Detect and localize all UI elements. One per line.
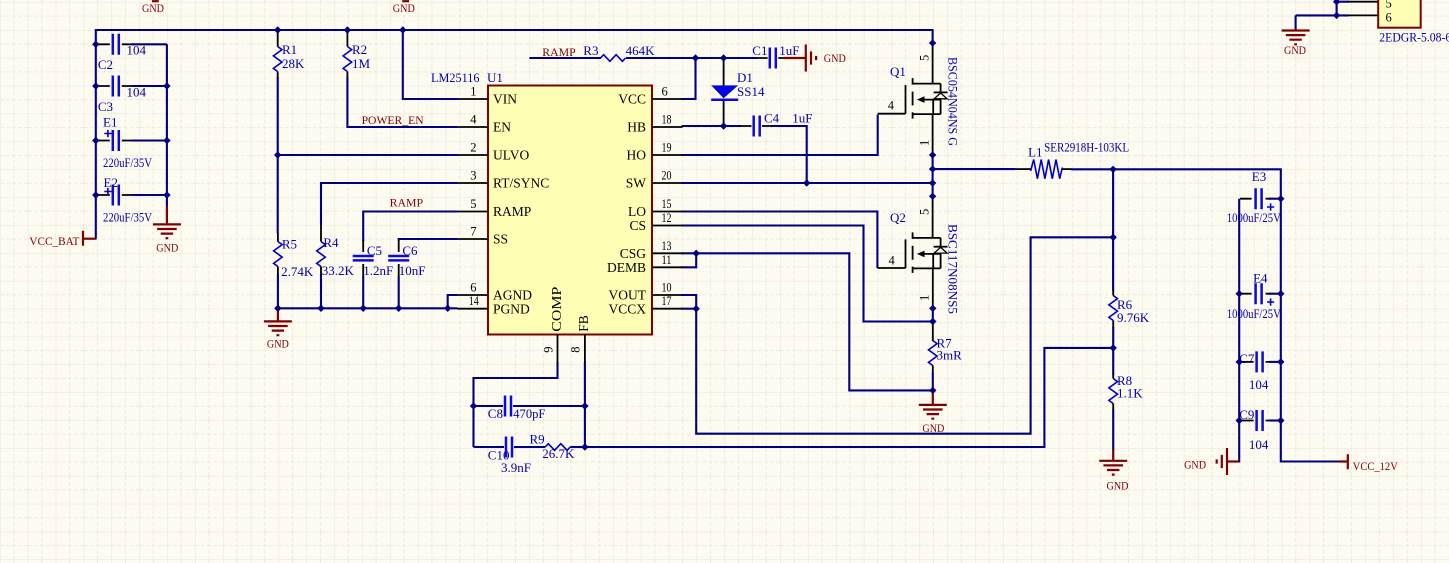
pin 7 SS — [458, 238, 489, 240]
node C8 right FB — [581, 402, 588, 409]
capacitor C2 — [113, 34, 119, 55]
svg-text:SW: SW — [626, 176, 647, 191]
node bus C6 — [395, 305, 402, 312]
wire right mini rail (C2-E2 column) — [166, 44, 168, 206]
resistor R6 — [1109, 296, 1118, 321]
node bus R5 — [274, 305, 281, 312]
svg-text:GND: GND — [156, 241, 178, 255]
svg-text:U1: U1 — [487, 70, 503, 85]
pin 12 CS — [652, 225, 683, 227]
node R9 FB — [581, 443, 588, 450]
node C3 left — [92, 82, 99, 89]
svg-text:4: 4 — [889, 254, 896, 268]
resistor R4 — [317, 242, 326, 267]
pin 11 DEMB — [652, 266, 683, 268]
node VCC drop — [692, 54, 699, 61]
svg-text:C9: C9 — [1239, 407, 1254, 422]
svg-text:FB: FB — [576, 315, 591, 332]
svg-text:5: 5 — [470, 197, 476, 211]
svg-text:LO: LO — [628, 204, 646, 219]
node R7 CSG tee — [929, 387, 936, 394]
transistor Q1 BSC054N04NS — [878, 78, 948, 119]
wire ULVO row — [278, 154, 458, 156]
svg-text:1: 1 — [918, 295, 932, 301]
wire VOUT jog down to VCCX — [682, 295, 697, 309]
svg-text:DEMB: DEMB — [607, 260, 646, 275]
svg-text:GND: GND — [393, 1, 415, 15]
wire output column through R6/R8 — [1112, 169, 1114, 291]
resistor R2 — [343, 47, 352, 72]
svg-text:SS14: SS14 — [737, 84, 765, 99]
svg-text:17: 17 — [662, 294, 672, 308]
svg-text:VOUT: VOUT — [609, 288, 647, 303]
wire D1 column — [723, 58, 725, 126]
resistor R7 (3mR) — [929, 341, 938, 366]
svg-text:C1: C1 — [752, 43, 767, 58]
pin 13 CSG — [652, 252, 683, 254]
svg-text:5: 5 — [918, 209, 932, 215]
resistor R3 — [601, 55, 626, 62]
svg-text:220uF/35V: 220uF/35V — [103, 209, 153, 224]
svg-text:D1: D1 — [737, 70, 753, 85]
svg-text:6: 6 — [1386, 11, 1392, 25]
svg-text:10nF: 10nF — [399, 263, 426, 278]
svg-text:104: 104 — [1249, 437, 1269, 452]
pin 5 RAMP — [458, 211, 489, 213]
plus sign E4 — [1267, 298, 1274, 305]
svg-text:GND: GND — [1184, 458, 1206, 472]
svg-text:28K: 28K — [282, 56, 305, 71]
svg-text:RAMP: RAMP — [390, 196, 424, 210]
node E4 left — [1236, 290, 1243, 297]
wire left rail VCC_BAT — [95, 29, 97, 239]
GND bar port (right, near C9) — [1227, 460, 1239, 462]
node Q1 drain pin — [929, 39, 936, 46]
svg-text:VCC_12V: VCC_12V — [1353, 459, 1398, 473]
connector J 2EDGR-5.08 body — [1378, 0, 1421, 28]
svg-text:E2: E2 — [104, 175, 118, 190]
node top rail R2 — [344, 26, 351, 33]
svg-text:AGND: AGND — [493, 288, 532, 303]
capacitor C3 — [113, 76, 119, 97]
svg-text:1uF: 1uF — [779, 43, 799, 58]
svg-text:1M: 1M — [352, 56, 371, 71]
wire SS pin row to C6 — [399, 239, 458, 241]
svg-text:9: 9 — [542, 346, 556, 352]
node top rail VIN — [399, 26, 406, 33]
svg-text:2: 2 — [470, 141, 476, 155]
wire VIN drop — [403, 30, 458, 99]
wire C10 row / R9 row — [474, 446, 546, 448]
wire E4 row — [1240, 293, 1271, 295]
wire CSG row to R7 bottom — [682, 253, 933, 390]
svg-text:ULVO: ULVO — [493, 148, 530, 163]
svg-text:R1: R1 — [282, 42, 297, 57]
node E2 left — [92, 191, 99, 198]
wire connector pins to GND drop — [1296, 2, 1349, 29]
pin connector 6 stub — [1348, 14, 1379, 16]
svg-text:GND: GND — [1284, 43, 1306, 57]
transistor Q2 BSC117N08NS5 — [878, 232, 948, 273]
node bus R4 — [317, 305, 324, 312]
pin 18 HB — [652, 126, 683, 128]
wire RAMP pin row to C5 — [363, 212, 457, 242]
svg-text:LM25116: LM25116 — [431, 70, 480, 85]
svg-text:GND: GND — [142, 1, 164, 15]
wire C2 row — [97, 43, 133, 45]
node C2 left — [92, 41, 99, 48]
node CSG DEMB tee — [693, 250, 700, 257]
node Q2 source pin — [929, 305, 936, 312]
node C7 left — [1236, 358, 1243, 365]
svg-text:CS: CS — [629, 218, 646, 233]
ground under E2 column — [166, 206, 168, 224]
svg-text:13: 13 — [662, 239, 672, 253]
svg-text:R3: R3 — [583, 43, 598, 58]
svg-text:1.1K: 1.1K — [1117, 386, 1143, 401]
node bus C5 — [360, 305, 367, 312]
wire C7 row — [1240, 361, 1271, 363]
pin 20 SW — [652, 182, 683, 184]
diode D1 SS14 — [711, 85, 738, 98]
svg-text:4: 4 — [470, 113, 477, 127]
svg-text:Q1: Q1 — [890, 64, 906, 79]
node VCCX VOUT tee — [693, 305, 700, 312]
wire E3 row — [1240, 198, 1271, 200]
wire VCC pin to top row — [682, 58, 696, 99]
pin 6 VCC — [652, 98, 683, 100]
svg-text:SER2918H-103KL: SER2918H-103KL — [1044, 140, 1129, 155]
pin 15 LO — [652, 211, 683, 213]
svg-text:GND: GND — [267, 336, 289, 350]
svg-text:5: 5 — [918, 55, 932, 61]
node connector pin5 — [1333, 0, 1340, 5]
node bus AGND — [444, 305, 451, 312]
svg-text:R9: R9 — [530, 432, 545, 447]
svg-text:BSC117N08NS5: BSC117N08NS5 — [946, 224, 961, 314]
pin 6 AGND — [458, 294, 489, 296]
wire COMP loop (pin 9 to C8/C10) — [474, 362, 558, 447]
svg-text:VCCX: VCCX — [608, 302, 646, 317]
resistor R5 — [274, 242, 283, 267]
wire top VIN rail — [96, 29, 933, 31]
svg-text:C3: C3 — [98, 99, 113, 114]
svg-text:470pF: 470pF — [513, 406, 545, 421]
wire L1 to output rail, down right side to VCC_12V — [1071, 169, 1340, 461]
svg-text:104: 104 — [127, 43, 147, 58]
svg-text:6: 6 — [662, 85, 668, 99]
svg-text:1: 1 — [918, 140, 932, 146]
capacitor E2 (polarized) — [113, 185, 119, 206]
svg-text:RT/SYNC: RT/SYNC — [493, 176, 549, 191]
svg-text:GND: GND — [824, 51, 846, 65]
node E2 right — [163, 191, 170, 198]
svg-text:1000uF/25V: 1000uF/25V — [1227, 306, 1281, 321]
op-amp U1 LM25116 IC body — [488, 86, 652, 335]
capacitor C10 — [506, 437, 512, 458]
GND port bar top left 2 — [402, 0, 409, 2]
svg-text:5: 5 — [1386, 0, 1392, 11]
svg-text:220uF/35V: 220uF/35V — [103, 155, 153, 170]
node C7 right — [1277, 358, 1284, 365]
svg-text:CSG: CSG — [620, 246, 647, 261]
node Q1 source pin — [929, 151, 936, 158]
plus sign E2 — [104, 188, 111, 195]
wire R2 column to EN (POWER_EN) — [346, 30, 348, 79]
wire Q1 source pin — [932, 114, 934, 156]
pin 4 EN — [458, 126, 489, 128]
svg-text:2EDGR-5.08-6: 2EDGR-5.08-6 — [1379, 30, 1449, 45]
svg-text:COMP: COMP — [549, 287, 564, 332]
svg-text:104: 104 — [1249, 377, 1269, 392]
pin 3 RT/SYNC — [458, 182, 489, 184]
node C8 left — [470, 402, 477, 409]
svg-text:3.9nF: 3.9nF — [501, 460, 531, 475]
node top rail R1 — [274, 26, 281, 33]
svg-text:R4: R4 — [323, 235, 339, 250]
node C9 left — [1236, 417, 1243, 424]
svg-text:C6: C6 — [402, 243, 418, 258]
svg-text:9.76K: 9.76K — [1117, 310, 1150, 325]
svg-text:C7: C7 — [1239, 351, 1255, 366]
node E1 right — [163, 137, 170, 144]
svg-text:33.2K: 33.2K — [322, 263, 355, 278]
svg-text:BSC054N04NS G: BSC054N04NS G — [946, 57, 961, 146]
svg-text:R5: R5 — [282, 237, 297, 252]
svg-text:2.74K: 2.74K — [281, 264, 314, 279]
pin 19 HO — [652, 154, 683, 156]
ground under R8 — [1112, 449, 1114, 460]
svg-text:E3: E3 — [1252, 169, 1266, 184]
svg-text:RAMP: RAMP — [542, 45, 576, 59]
wire C3 row — [97, 85, 133, 87]
svg-text:SS: SS — [493, 232, 508, 247]
node D1 HB — [720, 122, 727, 129]
svg-text:L1: L1 — [1028, 145, 1042, 160]
capacitor C1 — [770, 48, 776, 69]
svg-text:HO: HO — [627, 148, 647, 163]
pin 14 PGND — [458, 308, 489, 310]
wire Q1/Q2 column — [932, 29, 934, 43]
wire DEMB jog up to CSG — [682, 253, 697, 267]
svg-text:R2: R2 — [352, 42, 367, 57]
svg-text:3mR: 3mR — [937, 348, 963, 363]
wire FB column (pin 8) — [584, 362, 586, 447]
capacitor C7 — [1257, 351, 1263, 372]
pin connector 5 stub — [1348, 1, 1379, 3]
wire HO row to Q1 gate — [682, 115, 878, 155]
pin 10 VOUT — [652, 294, 683, 296]
svg-text:6: 6 — [470, 281, 476, 295]
svg-text:HB: HB — [627, 120, 646, 135]
svg-text:E4: E4 — [1253, 271, 1268, 286]
wire R1 column to ULVO and R5 — [277, 30, 279, 79]
capacitor E3 (polarized) — [1256, 188, 1262, 209]
wire C9 row — [1240, 420, 1271, 422]
svg-text:1000uF/25V: 1000uF/25V — [1227, 210, 1281, 225]
node ULVO/R1/R5 — [274, 151, 281, 158]
node SW Q column — [929, 179, 936, 186]
pin 8 FB — [584, 335, 586, 364]
ground under R5 bus — [277, 308, 279, 321]
svg-text:PGND: PGND — [493, 302, 530, 317]
VCC_BAT port bar — [82, 231, 84, 246]
resistor R1 — [273, 47, 282, 72]
svg-text:C2: C2 — [98, 57, 113, 72]
wire LO row to Q2 gate — [682, 212, 878, 269]
svg-text:11: 11 — [662, 253, 672, 267]
svg-text:EN: EN — [493, 120, 511, 135]
node D1 top — [720, 54, 727, 61]
svg-text:GND: GND — [922, 421, 944, 435]
wire RT/SYNC to R4 — [321, 183, 458, 225]
node C4 SW — [803, 179, 810, 186]
svg-text:8: 8 — [569, 346, 583, 352]
node Q2 drain pin — [929, 193, 936, 200]
wire SW row — [682, 182, 933, 184]
capacitor C6 — [388, 256, 409, 260]
svg-text:12: 12 — [662, 211, 672, 225]
wire C8 row — [474, 405, 585, 407]
svg-text:18: 18 — [662, 113, 672, 127]
wire RAMP top row (R3/C1) — [529, 57, 757, 59]
svg-text:10: 10 — [662, 281, 672, 295]
node CS tee — [929, 318, 936, 325]
svg-text:VCC: VCC — [618, 92, 646, 107]
capacitor C8 — [505, 396, 511, 417]
wire E2 row — [97, 194, 133, 196]
svg-text:1: 1 — [470, 85, 476, 99]
ground under R7 — [932, 390, 934, 404]
wire E3-C9 left rail — [1238, 199, 1239, 462]
node E4 right — [1277, 290, 1284, 297]
svg-text:E1: E1 — [103, 115, 117, 130]
wire SW node to L1 — [933, 168, 1016, 170]
wire C4 black lead stubs — [740, 125, 773, 127]
svg-text:19: 19 — [662, 141, 672, 155]
wire CS row to R7 top — [682, 226, 933, 322]
capacitor E4 (polarized) — [1256, 283, 1262, 304]
GND port bar top left 1 — [152, 0, 159, 2]
ground top right (connector) — [1294, 28, 1296, 30]
node output sense — [1110, 234, 1117, 241]
svg-text:26.7K: 26.7K — [542, 446, 575, 461]
svg-text:464K: 464K — [626, 43, 656, 58]
svg-text:RAMP: RAMP — [493, 204, 531, 219]
svg-text:104: 104 — [127, 85, 147, 100]
capacitor C4 — [754, 116, 760, 137]
plus sign E1 — [104, 130, 111, 137]
svg-text:15: 15 — [662, 197, 672, 211]
svg-text:VIN: VIN — [493, 92, 517, 107]
GND bar port (C1) — [784, 57, 806, 59]
capacitor C9 — [1257, 410, 1263, 431]
capacitor C5 — [353, 256, 374, 260]
svg-text:1.2nF: 1.2nF — [363, 263, 393, 278]
VCC_12V port bar — [1339, 454, 1348, 469]
node connector pin6 — [1333, 12, 1340, 19]
plus sign E3 — [1267, 203, 1274, 210]
svg-text:POWER_EN: POWER_EN — [362, 113, 424, 127]
svg-text:1uF: 1uF — [792, 110, 812, 125]
svg-text:3: 3 — [470, 169, 476, 183]
svg-text:GND: GND — [1107, 479, 1129, 493]
wire FB net to R6/R8 divider — [585, 348, 1113, 447]
node C9 right — [1277, 417, 1284, 424]
svg-text:7: 7 — [470, 225, 476, 239]
pin 1 VIN — [458, 98, 489, 100]
pin 9 COMP — [557, 335, 559, 364]
capacitor E1 (polarized) — [113, 130, 119, 151]
wire E1 row — [97, 140, 133, 142]
svg-text:4: 4 — [888, 99, 895, 113]
node output L1 — [1109, 166, 1116, 173]
svg-text:C8: C8 — [488, 406, 503, 421]
svg-text:C4: C4 — [764, 110, 780, 125]
svg-text:14: 14 — [469, 294, 480, 308]
wire C1 black lead stubs — [758, 57, 785, 59]
wire VCC_BAT port lead — [84, 238, 97, 240]
svg-text:20: 20 — [662, 169, 672, 183]
node C3 right — [163, 82, 170, 89]
pin 2 ULVO — [458, 154, 489, 156]
svg-text:C5: C5 — [367, 243, 382, 258]
wire AGND/PGND bus — [278, 295, 458, 308]
svg-text:VCC_BAT: VCC_BAT — [29, 234, 80, 248]
node L1 tee — [929, 165, 936, 172]
wire HB row to C4 and SW — [682, 126, 807, 183]
pin 17 VCCX — [652, 308, 683, 310]
wire VCCX long route to output — [682, 237, 1114, 433]
node E3 right — [1277, 195, 1284, 202]
svg-text:Q2: Q2 — [890, 210, 906, 225]
node R6/R8 FB — [1110, 344, 1117, 351]
node E1 left — [92, 137, 99, 144]
resistor R8 — [1109, 379, 1118, 404]
inductor L1 — [1031, 160, 1063, 179]
resistor R9 — [545, 444, 570, 451]
